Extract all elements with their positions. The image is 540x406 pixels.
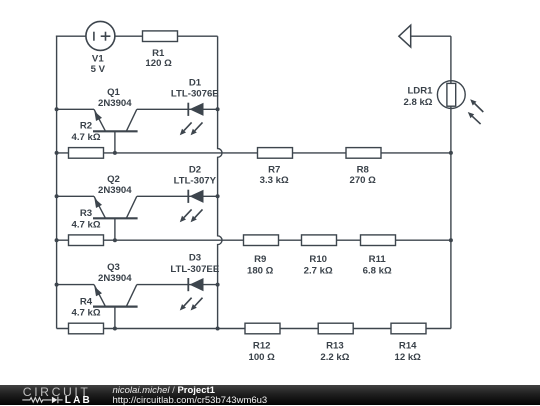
svg-text:2.2 kΩ: 2.2 kΩ <box>320 352 349 363</box>
svg-text:R2: R2 <box>80 121 92 132</box>
svg-text:R14: R14 <box>399 341 417 352</box>
node dot base junction row 1 <box>113 151 117 155</box>
svg-text:Q3: Q3 <box>107 262 120 273</box>
node dot left rail row 1 bottom <box>55 151 59 155</box>
svg-text:D2: D2 <box>189 164 201 175</box>
transistor Q3 2N3904 <box>93 285 138 329</box>
node dot left rail row 2 bottom <box>55 238 59 242</box>
svg-text:180 Ω: 180 Ω <box>247 265 274 276</box>
left vertical rail wire <box>56 36 58 329</box>
svg-text:R4: R4 <box>80 296 93 307</box>
svg-text:2.8 kΩ: 2.8 kΩ <box>403 97 432 108</box>
resistor R13 <box>318 323 353 334</box>
svg-text:2N3904: 2N3904 <box>98 98 132 109</box>
transistor Q1 2N3904 <box>93 109 138 153</box>
node dot right rail row 2 <box>449 238 453 242</box>
resistor R7 <box>258 148 293 159</box>
resistor R14 <box>391 323 426 334</box>
svg-text:R7: R7 <box>268 164 280 175</box>
wire collector to LED D2 <box>137 195 218 197</box>
svg-text:R9: R9 <box>254 254 266 265</box>
wire flag to right rail <box>411 35 451 37</box>
svg-text:Q1: Q1 <box>107 87 120 98</box>
wire top-left from V1 to left rail <box>56 35 86 37</box>
svg-text:LTL-307EE: LTL-307EE <box>170 264 219 275</box>
node dot bottom wire at mid rail <box>216 327 220 331</box>
LED D1 LTL-3076E <box>180 103 204 136</box>
svg-text:6.8 kΩ: 6.8 kΩ <box>363 265 392 276</box>
resistor R11 <box>361 235 396 246</box>
photoresistor LDR1 <box>437 81 483 124</box>
svg-text:LTL-3076E: LTL-3076E <box>171 89 219 100</box>
svg-text:120 Ω: 120 Ω <box>145 58 172 69</box>
svg-text:D1: D1 <box>189 77 202 88</box>
wire row 1 emitter from left rail <box>57 108 94 110</box>
svg-text:LDR1: LDR1 <box>407 86 433 97</box>
svg-text:4.7 kΩ: 4.7 kΩ <box>71 132 100 143</box>
svg-text:V1: V1 <box>92 53 104 64</box>
LED D2 LTL-307Y <box>180 190 204 223</box>
svg-text:R3: R3 <box>80 208 92 219</box>
node dot mid rail row 3 top <box>216 283 220 287</box>
node dot base junction row 3 <box>113 327 117 331</box>
resistor R8 <box>346 148 381 159</box>
svg-text:12 kΩ: 12 kΩ <box>395 352 422 363</box>
resistor R9 <box>244 235 279 246</box>
wire R1 to mid rail <box>178 35 218 37</box>
node dot left rail row 1 top <box>55 107 59 111</box>
node dot mid rail row 1 top <box>216 107 220 111</box>
svg-text:LAB: LAB <box>65 395 92 405</box>
svg-text:4.7 kΩ: 4.7 kΩ <box>71 308 100 319</box>
wire row 3 emitter from left rail <box>57 284 94 286</box>
wire collector to LED D1 <box>137 108 218 110</box>
mid vertical rail wire with hops <box>218 36 222 328</box>
svg-text:Q2: Q2 <box>107 174 120 185</box>
svg-text:D3: D3 <box>189 253 201 264</box>
node dot left rail row 2 top <box>55 194 59 198</box>
svg-text:R12: R12 <box>253 341 271 352</box>
node dot right rail row 1 <box>449 151 453 155</box>
resistor R2 <box>69 148 104 159</box>
wire row 3 base bottom <box>57 328 451 330</box>
node dot mid rail row 2 top <box>216 194 220 198</box>
wire row 2 emitter from left rail <box>57 195 94 197</box>
svg-text:5 V: 5 V <box>91 64 106 75</box>
node flag marker <box>399 25 411 47</box>
wire row 2 base bottom <box>57 239 451 241</box>
resistor R10 <box>302 235 337 246</box>
wire row 1 base bottom <box>57 152 451 154</box>
svg-text:R13: R13 <box>326 341 344 352</box>
svg-text:R8: R8 <box>357 164 370 175</box>
svg-text:2N3904: 2N3904 <box>98 185 132 196</box>
svg-text:4.7 kΩ: 4.7 kΩ <box>71 219 100 230</box>
transistor Q2 2N3904 <box>93 196 138 240</box>
CircuitLab logo <box>0 385 110 406</box>
resistor R12 <box>245 323 280 334</box>
right rail lower wire <box>450 106 452 328</box>
svg-text:2N3904: 2N3904 <box>98 273 132 284</box>
voltage source V1 <box>86 21 115 50</box>
svg-text:2.7 kΩ: 2.7 kΩ <box>304 265 333 276</box>
wire V1 to R1 <box>115 35 143 37</box>
resistor R4 <box>69 323 104 334</box>
svg-text:R10: R10 <box>309 254 327 265</box>
svg-text:LTL-307Y: LTL-307Y <box>174 176 217 187</box>
LED D3 LTL-307EE <box>180 278 204 311</box>
node dot base junction row 2 <box>113 238 117 242</box>
svg-text:100 Ω: 100 Ω <box>249 352 276 363</box>
svg-text:270 Ω: 270 Ω <box>350 175 377 186</box>
svg-text:3.3 kΩ: 3.3 kΩ <box>260 175 289 186</box>
resistor R1 <box>143 31 178 42</box>
resistor R3 <box>69 235 104 246</box>
svg-text:R11: R11 <box>369 254 387 265</box>
node dot left rail row 3 top <box>55 283 59 287</box>
right rail upper wire <box>450 36 452 83</box>
wire collector to LED D3 <box>137 284 218 286</box>
